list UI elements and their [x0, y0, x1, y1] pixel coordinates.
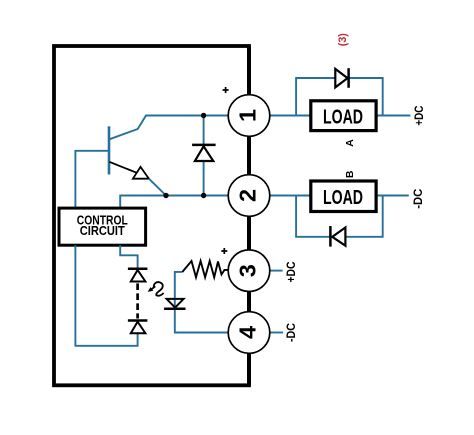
terminal 2 — [228, 175, 270, 217]
svg-text:LOAD: LOAD — [323, 105, 363, 128]
svg-text:A: A — [344, 139, 356, 147]
junction dot diode/terminal2 — [201, 193, 206, 198]
photodiode stack dashed link — [136, 283, 139, 318]
control circuit box — [59, 208, 146, 245]
svg-text:LOAD: LOAD — [323, 186, 363, 209]
output diode D1 triangle — [195, 146, 213, 161]
svg-text:1: 1 — [235, 109, 261, 122]
photodiode stack D3 triangle — [131, 322, 146, 334]
load A box — [311, 101, 376, 131]
polarity plus terminal 1 — [223, 87, 229, 93]
junction dot emitter — [163, 193, 168, 198]
svg-text:2: 2 — [235, 189, 261, 202]
wire control to photodiode stack cathode — [120, 245, 137, 269]
junction dot collector/diode — [201, 113, 206, 118]
wire emitter rail to terminal 2 — [120, 196, 228, 209]
svg-text:+DC: +DC — [414, 106, 426, 126]
wire terminal2 to load B — [270, 195, 311, 197]
wire terminal4 stub — [270, 332, 283, 334]
svg-text:+DC: +DC — [286, 262, 298, 283]
svg-text:4: 4 — [235, 326, 261, 339]
photodiode stack D2 cathode bar — [128, 268, 147, 271]
svg-text:-DC: -DC — [413, 189, 425, 209]
transistor Q1 emitter arrow — [133, 167, 149, 179]
wire load A bypass loop — [296, 78, 383, 116]
photodiode stack D2 triangle — [131, 270, 146, 282]
wire resistor node — [175, 272, 228, 333]
bypass diode D5 triangle — [335, 69, 347, 88]
terminal 3 — [228, 250, 270, 292]
wire control to photodiode stack anode — [75, 245, 137, 346]
photon arrow — [154, 282, 164, 296]
output diode D1 cathode bar — [192, 144, 216, 147]
wire load B bypass loop — [296, 196, 383, 237]
transistor Q1 base bar — [108, 126, 111, 174]
input LED D4 triangle — [167, 299, 184, 308]
wire load B to -DC — [376, 195, 409, 197]
wire collector to terminal 1 — [109, 116, 228, 140]
polarity plus terminal 3 — [221, 248, 227, 254]
svg-text:B: B — [344, 170, 356, 178]
bypass diode D5 cathode bar — [347, 68, 350, 88]
transistor Q1 emitter lead — [109, 162, 136, 173]
svg-text:3: 3 — [235, 264, 261, 277]
resistor R1 — [182, 261, 228, 277]
svg-text:(3): (3) — [337, 33, 349, 46]
input LED D4 cathode bar — [164, 308, 185, 311]
photodiode stack D3 cathode bar — [128, 319, 147, 322]
wire base to control circuit — [75, 151, 108, 209]
device outline box — [54, 46, 249, 385]
wire emitter to junction — [149, 179, 166, 196]
svg-text:-DC: -DC — [286, 323, 298, 342]
wire terminal3 stub — [270, 270, 283, 272]
bypass diode D6 triangle — [332, 228, 345, 246]
bypass diode D6 cathode bar — [329, 226, 332, 247]
terminal trunk segments — [247, 136, 251, 174]
terminal 4 — [228, 312, 270, 354]
wire output diode branch — [203, 116, 205, 196]
terminal 1 — [228, 95, 270, 137]
wire load A to +DC — [376, 115, 410, 117]
wire terminal1 to load A — [270, 115, 311, 117]
load B box — [311, 181, 376, 212]
svg-text:CIRCUIT: CIRCUIT — [80, 224, 125, 238]
